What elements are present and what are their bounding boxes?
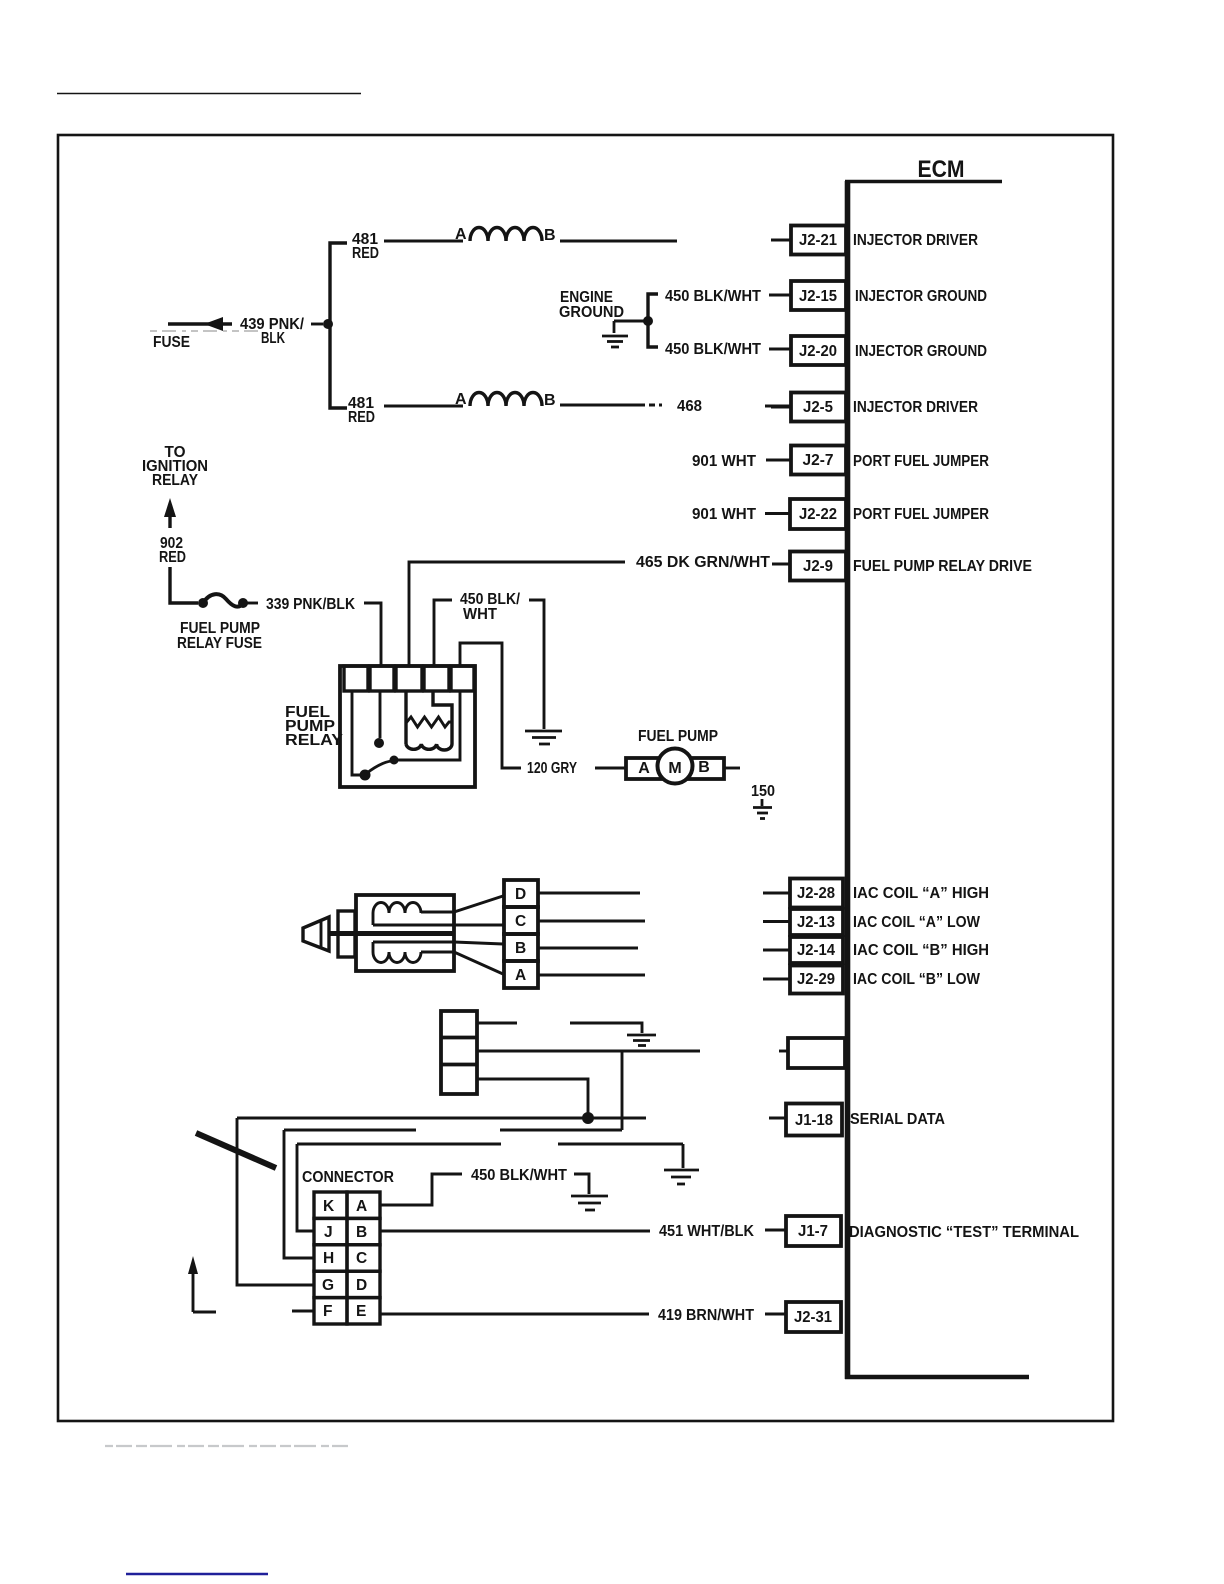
header rule [57,93,361,95]
wire 339 to relay terminal 2 [364,603,381,666]
svg-text:M: M [668,760,681,777]
svg-text:J2-13: J2-13 [797,914,835,931]
wire stack pin2 [477,1050,700,1053]
svg-text:J2-21: J2-21 [799,232,837,249]
svg-text:INJECTOR DRIVER: INJECTOR DRIVER [853,399,978,416]
wire pin F stub [292,1310,314,1313]
caption faint text [105,1445,348,1447]
pin J2-20 [771,336,987,365]
svg-text:J2-20: J2-20 [799,343,837,360]
fuse FUEL PUMP RELAY FUSE [198,594,258,608]
wire fuel pump B stub [724,767,740,770]
svg-text:901 WHT: 901 WHT [692,506,756,523]
svg-text:901 WHT: 901 WHT [692,453,756,470]
pin J2-21 [771,226,978,255]
wire serial data to G [237,1118,314,1285]
relay switch fixed contact [374,738,384,748]
svg-text:D: D [356,1277,367,1294]
node 439/481 junction [323,319,333,329]
node serial data junction [582,1112,594,1124]
pin J2-31 [765,1302,841,1332]
wire J net to ground [682,1144,685,1168]
svg-text:450 BLK/WHT: 450 BLK/WHT [665,341,761,358]
svg-text:120 GRY: 120 GRY [527,760,577,777]
wire 465 DK GRN/WHT [409,562,625,665]
svg-text:J2-14: J2-14 [797,942,835,959]
pin J2-13 [763,909,981,935]
svg-text:RED: RED [159,549,186,566]
injector 2 coil [455,391,556,409]
svg-text:J2-29: J2-29 [797,971,835,988]
svg-text:J2-15: J2-15 [799,288,837,305]
wire H net [284,1129,416,1132]
wire to injector 1 [384,240,463,243]
relay internal: terminal2 to fixed contact [379,691,382,738]
relay internal: terminal1 to lower contact [352,691,360,775]
wire injector 1 to J2-21 [560,240,677,243]
injector 1 coil [455,226,556,244]
wire IAC D to J2-28 [538,892,640,895]
svg-text:F: F [323,1303,332,1320]
wire pin B 451 WHT/BLK [380,1230,650,1233]
pin J2-7 [766,446,989,475]
pin J1-18 [769,1104,945,1136]
wire to injector 2 [384,405,463,408]
relay internal wire blade to terminal 5 [398,691,460,760]
wire serial data bus [237,1117,646,1120]
terminal 1 [344,666,368,691]
connector 3-terminal stack [441,1011,477,1094]
svg-text:FUEL PUMP RELAY DRIVE: FUEL PUMP RELAY DRIVE [853,558,1032,575]
IAC coil A (upper) [373,903,421,913]
svg-text:150: 150 [751,783,775,800]
wire 902 down to fuse [170,567,198,603]
wire 450 bracket [648,294,658,347]
wire stack pin3 [477,1079,588,1117]
pin J2-22 [765,499,989,529]
wire 120 GRY from relay terminal 5 [460,643,521,768]
svg-text:RELAY: RELAY [152,472,198,489]
IAC valve collar [338,911,355,957]
node 450 junction [643,316,653,326]
svg-text:FUEL PUMP: FUEL PUMP [638,728,718,745]
svg-text:E: E [356,1303,366,1320]
svg-text:J2-7: J2-7 [802,452,833,469]
svg-text:IAC COIL “B” LOW: IAC COIL “B” LOW [853,971,981,988]
svg-text:A: A [515,967,526,984]
svg-text:419 BRN/WHT: 419 BRN/WHT [658,1307,754,1324]
motor FUEL PUMP [626,749,724,784]
svg-text:B: B [356,1224,367,1241]
ground (ALDL 450) [571,1196,608,1210]
svg-text:A: A [356,1198,367,1215]
ECM module outline [845,181,1029,1379]
ground (pin1 net) [627,1035,656,1046]
svg-text:IAC COIL “A” LOW: IAC COIL “A” LOW [853,914,981,931]
svg-text:C: C [356,1250,367,1267]
svg-text:J2-9: J2-9 [803,558,833,575]
svg-text:PORT FUEL JUMPER: PORT FUEL JUMPER [853,453,989,470]
svg-text:450 BLK/WHT: 450 BLK/WHT [665,288,761,305]
svg-text:465 DK GRN/WHT: 465 DK GRN/WHT [636,554,770,571]
svg-text:CONNECTOR: CONNECTOR [302,1169,394,1186]
arrow marker bottom left [188,1256,216,1312]
svg-text:J2-31: J2-31 [794,1309,832,1326]
wire pin A 450 BLK/WHT [380,1174,462,1205]
connector IAC D/C/B/A [504,880,538,988]
terminal 5 [451,666,474,691]
ground (450 relay) [525,731,562,744]
svg-text:J1-18: J1-18 [795,1112,833,1129]
svg-text:G: G [322,1277,334,1294]
IAC valve body [356,895,503,974]
svg-text:RELAY: RELAY [285,732,343,749]
svg-text:FUSE: FUSE [153,334,190,351]
svg-text:450 BLK/WHT: 450 BLK/WHT [471,1167,567,1184]
scan artifact dashes above FUSE [150,330,260,332]
wire pin2 drop to H [621,1051,624,1130]
pin J2-29 [763,966,981,994]
svg-text:RED: RED [352,245,379,262]
svg-text:B: B [698,759,710,776]
wire to ground (ALDL 450) [574,1174,589,1194]
svg-text:INJECTOR GROUND: INJECTOR GROUND [855,343,987,360]
ground 150 [753,799,772,819]
svg-text:A: A [638,760,650,777]
svg-text:INJECTOR DRIVER: INJECTOR DRIVER [853,232,978,249]
pin J2-5 [771,393,978,422]
svg-text:C: C [515,913,526,930]
wire engine ground to 450 bracket [614,320,646,323]
svg-text:B: B [544,227,556,244]
svg-text:GROUND: GROUND [559,304,624,321]
svg-text:INJECTOR GROUND: INJECTOR GROUND [855,288,987,305]
svg-text:SERIAL DATA: SERIAL DATA [850,1111,945,1128]
wire arrow up to ignition relay [164,498,176,528]
svg-text:J2-28: J2-28 [797,885,835,902]
terminal 2 [370,666,394,691]
pin J2-14 [763,937,989,963]
svg-text:A: A [455,226,467,243]
pin J1-7 [765,1216,1079,1246]
svg-text:A: A [455,391,467,408]
svg-text:RELAY FUSE: RELAY FUSE [177,635,262,652]
pin J2-28 [763,879,989,908]
crossing slash [196,1133,276,1168]
ground (engine) [602,321,628,347]
relay switch lower contact [360,770,371,781]
wire pin E 419 BRN/WHT [380,1313,649,1316]
wire IAC A to J2-29 [538,974,645,977]
svg-text:WHT: WHT [463,606,497,623]
label TO IGNITION RELAY [142,444,208,489]
svg-text:PORT FUEL JUMPER: PORT FUEL JUMPER [853,506,989,523]
wire 120 GRY to fuel pump [595,767,626,770]
svg-text:339 PNK/BLK: 339 PNK/BLK [266,596,355,613]
svg-text:H: H [323,1250,334,1267]
svg-text:D: D [515,886,526,903]
terminal 3 [396,666,422,691]
svg-text:BLK: BLK [261,330,285,347]
relay coil [433,691,452,744]
svg-text:J2-22: J2-22 [799,506,837,523]
diagram border frame [58,135,1113,1421]
IAC valve pintle cone [303,917,356,951]
svg-text:B: B [515,940,526,957]
wire IAC B to J2-14 [538,947,638,950]
svg-text:J1-7: J1-7 [798,1223,828,1240]
svg-text:DIAGNOSTIC “TEST” TERMINAL: DIAGNOSTIC “TEST” TERMINAL [849,1224,1079,1241]
wire 450 BLK/WHT relay branch [434,600,452,666]
svg-text:J2-5: J2-5 [803,399,833,416]
svg-text:K: K [323,1198,335,1215]
relay FUEL PUMP RELAY [340,666,475,787]
svg-text:J: J [324,1224,333,1241]
relay switch blade [367,761,391,773]
svg-text:451 WHT/BLK: 451 WHT/BLK [659,1223,754,1240]
wire 481 branch bracket [330,243,347,408]
wire IAC C to J2-13 [538,920,645,923]
footer link rule [126,1573,268,1575]
svg-text:RED: RED [348,409,375,426]
pin J2-9 [790,552,1032,581]
IAC coil B (lower) [373,952,421,963]
svg-text:B: B [544,392,556,409]
ground (J net) [664,1170,699,1184]
wire stack pin1 [477,1022,517,1025]
wire to ground (pin1 net) [570,1023,642,1033]
wire to ground from 450 [529,600,544,729]
wire 439 PNK/BLK with arrow to fuse [168,317,323,331]
pin unlabeled [779,1038,845,1068]
svg-text:IAC COIL “A” HIGH: IAC COIL “A” HIGH [853,885,989,902]
connector ALDL grid [314,1192,380,1324]
wire injector 2, net 468 [560,404,645,407]
svg-text:468: 468 [677,398,702,415]
svg-text:ECM: ECM [918,156,965,183]
terminal 4 [424,666,449,691]
pin J2-15 [771,281,987,310]
svg-text:IAC COIL “B” HIGH: IAC COIL “B” HIGH [853,942,989,959]
wire J net [297,1143,501,1146]
